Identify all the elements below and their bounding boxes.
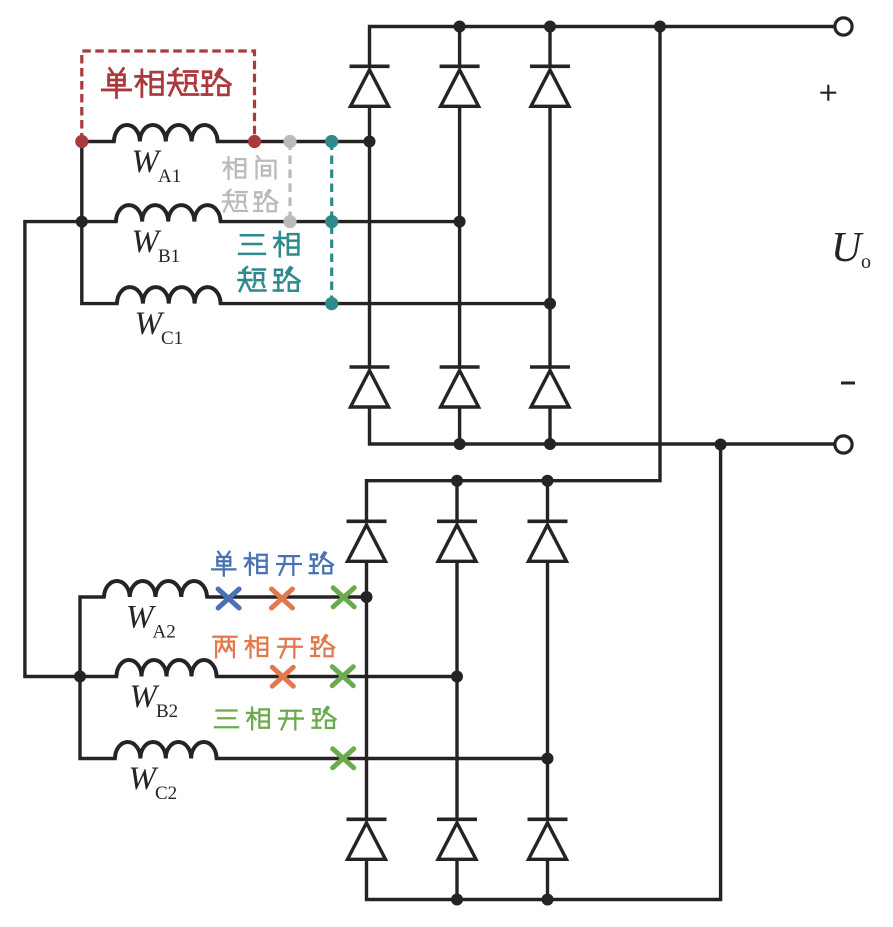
svg-text:W: W	[132, 224, 162, 260]
svg-text:A2: A2	[153, 622, 176, 643]
svg-text:W: W	[130, 679, 160, 715]
svg-text:B1: B1	[158, 246, 180, 267]
svg-text:C1: C1	[161, 328, 183, 349]
svg-text:A1: A1	[158, 166, 181, 187]
svg-text:C2: C2	[155, 783, 177, 804]
svg-text:B2: B2	[156, 701, 178, 722]
svg-text:W: W	[126, 600, 156, 636]
svg-text:W: W	[129, 761, 159, 797]
svg-text:W: W	[132, 144, 162, 180]
svg-text:W: W	[135, 306, 165, 342]
svg-text:U: U	[831, 225, 864, 271]
svg-text:o: o	[861, 251, 871, 273]
